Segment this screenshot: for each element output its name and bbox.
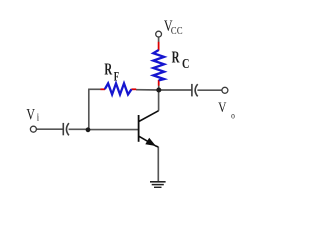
svg-text:R: R [104,61,113,79]
svg-text:i: i [37,111,40,123]
svg-text:C: C [182,56,189,72]
svg-text:F: F [114,70,120,84]
svg-text:o: o [231,110,235,121]
svg-text:V: V [26,106,35,123]
svg-text:CC: CC [171,25,183,37]
svg-text:V: V [218,98,227,115]
svg-text:R: R [172,49,181,68]
